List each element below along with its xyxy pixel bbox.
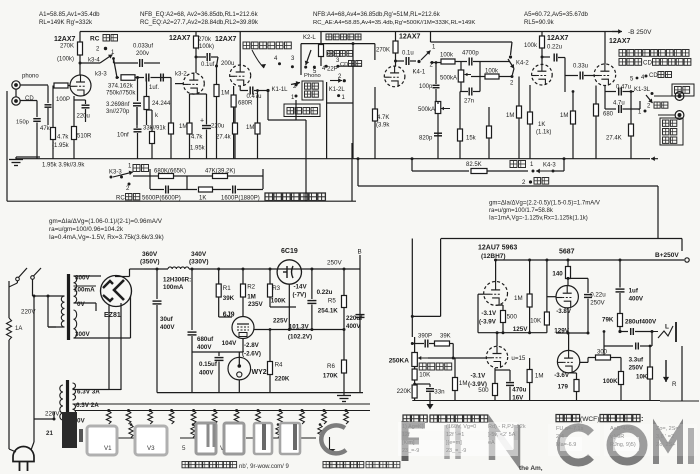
resistor 680R	[231, 95, 236, 107]
node 129V line	[556, 332, 588, 334]
wire mains left lower	[8, 340, 10, 449]
capacitor 0.033uf	[113, 59, 115, 64]
switch K1-2L	[330, 80, 342, 82]
svg-text:500: 500	[478, 387, 489, 394]
svg-text:R3: R3	[272, 285, 280, 292]
label 响度补偿	[419, 363, 426, 370]
svg-text:220K: 220K	[397, 388, 412, 395]
svg-text:R5: R5	[328, 298, 336, 305]
svg-text:(12BH7): (12BH7)	[481, 253, 506, 260]
svg-text:CD: CD	[340, 62, 348, 68]
label 括号内是修改值	[265, 193, 273, 201]
wire stage5 plate to bus	[604, 32, 606, 65]
svg-text:1600P(1880P): 1600P(1880P)	[221, 196, 260, 202]
ground symbol psu	[337, 395, 351, 397]
wire 225V node line	[254, 329, 344, 331]
svg-text:(-3.9V: (-3.9V	[479, 319, 497, 326]
svg-text:1.95k 3.9k//3.9k: 1.95k 3.9k//3.9k	[42, 163, 85, 169]
svg-text:400V: 400V	[197, 344, 212, 351]
svg-text:270K: 270K	[60, 44, 74, 50]
svg-text:(-2.6V): (-2.6V)	[242, 351, 261, 358]
resistor 270k stage2 anode	[195, 32, 197, 37]
svg-text:400V: 400V	[160, 324, 175, 331]
svg-text:79K: 79K	[602, 317, 614, 324]
svg-text:ra=u/gm=100/1.7=58.8k: ra=u/gm=100/1.7=58.8k	[489, 208, 554, 214]
svg-text:v,) 9R: v,) 9R	[610, 434, 624, 440]
mains plug	[13, 447, 34, 462]
svg-text:225V: 225V	[273, 318, 289, 325]
svg-text:CD: CD	[327, 52, 335, 58]
svg-text:Zo=, 2S=*: Zo=, 2S=*	[656, 426, 682, 432]
svg-text:-14V: -14V	[294, 284, 308, 291]
tube EZ81 rectifier	[101, 276, 132, 307]
svg-text:27.4k: 27.4k	[216, 135, 232, 141]
svg-text:(100k): (100k)	[57, 57, 74, 63]
watermark glyph box V3	[135, 426, 167, 455]
svg-text:0.47u: 0.47u	[247, 94, 262, 100]
svg-text:1uf: 1uf	[629, 288, 639, 295]
ground bus psu	[157, 392, 363, 394]
svg-text:K4-2: K4-2	[516, 61, 529, 67]
svg-text:360V: 360V	[142, 251, 158, 258]
svg-text:0V: 0V	[77, 418, 86, 425]
svg-text:5687: 5687	[559, 249, 575, 256]
wire mains left	[8, 281, 10, 318]
svg-text:374.162k: 374.162k	[108, 84, 134, 90]
watermark letter M	[656, 429, 680, 464]
svg-text:820p: 820p	[419, 136, 433, 142]
svg-text:R2: R2	[247, 284, 255, 291]
svg-text:Ia=1mA,Vg=-1.125v,Rx=1.125k(1.: Ia=1mA,Vg=-1.125v,Rx=1.125k(1.1k)	[489, 216, 588, 222]
svg-text:V1: V1	[104, 445, 112, 452]
svg-text:1K: 1K	[538, 122, 545, 128]
svg-text:Phono: Phono	[304, 73, 321, 79]
svg-text:235V: 235V	[248, 301, 264, 308]
svg-text:0.033uf: 0.033uf	[133, 44, 153, 50]
svg-text:(1.95k: (1.95k	[52, 143, 70, 149]
svg-text:(160V, Vg=0: (160V, Vg=0	[446, 424, 476, 430]
svg-text:12AX7: 12AX7	[399, 34, 421, 41]
svg-text:-3.1V: -3.1V	[481, 310, 497, 317]
svg-text:23_=_-9: 23_=_-9	[446, 448, 466, 454]
headphone jack L	[652, 331, 658, 333]
wire V2a plate to bus	[239, 32, 241, 66]
svg-text:200v: 200v	[136, 51, 149, 57]
svg-text:(102.2V): (102.2V)	[288, 334, 312, 341]
svg-text:179: 179	[558, 384, 569, 391]
svg-text:12f '-=1: 12f '-=1	[446, 432, 464, 438]
svg-text:5: 5	[182, 445, 186, 452]
watermark glyph bars mid2	[254, 423, 272, 454]
svg-text:0.1uf: 0.1uf	[201, 62, 215, 68]
svg-text:Ma=-6.9: Ma=-6.9	[556, 442, 576, 448]
svg-text:400V: 400V	[629, 296, 644, 303]
watermark letters II	[447, 425, 458, 459]
tube WY2 stabilizer	[228, 357, 251, 380]
wire stage2 plate	[195, 57, 197, 73]
svg-text:phono: phono	[22, 74, 39, 80]
capacitor 3.3uf path	[603, 346, 605, 355]
transformer secondary HV	[74, 276, 77, 303]
svg-text:100k: 100k	[440, 53, 454, 59]
svg-text:250V: 250V	[629, 365, 644, 372]
heater secondary coils	[73, 383, 76, 400]
resistor col x171	[169, 123, 174, 134]
resistor cathode V4 col	[487, 126, 492, 138]
svg-text:1M: 1M	[459, 380, 468, 387]
B+ 250V bus	[494, 259, 684, 261]
heater transformer core	[66, 380, 69, 437]
label 第二级 WCF heading	[556, 415, 563, 422]
svg-text:WY2: WY2	[252, 369, 267, 376]
resistor 27.4k col	[233, 123, 238, 134]
svg-text:the Am,: the Am,	[519, 465, 543, 472]
watermark white slab over O gap	[613, 437, 639, 451]
svg-text:]{e=m]: ]{e=m]	[446, 440, 462, 446]
label 反馈 left	[133, 165, 140, 172]
svg-text:100K: 100K	[271, 298, 286, 305]
wire cathode join	[74, 99, 86, 101]
resistor R1 39K	[217, 268, 220, 271]
svg-text:22P: 22P	[327, 67, 338, 73]
svg-text:250V: 250V	[327, 260, 343, 267]
svg-text:30uf: 30uf	[160, 316, 174, 323]
svg-text:RL=149K Rg'=332k: RL=149K Rg'=332k	[39, 19, 93, 26]
svg-text:100mA: 100mA	[74, 287, 95, 294]
svg-text:(100k): (100k)	[197, 44, 214, 50]
box lower right bottom border	[660, 400, 699, 402]
svg-text:10K: 10K	[419, 372, 431, 379]
svg-text:B: B	[358, 249, 362, 256]
watermark glyph box V1	[87, 426, 117, 455]
label 唱机前放耳放 arrow	[243, 42, 250, 49]
wire plug cables	[9, 449, 16, 452]
label 第一级 heading	[403, 415, 410, 422]
svg-text:RC_EQ:A2=27.7,Av2=28.84db,RL2=: RC_EQ:A2=27.7,Av2=28.84db,RL2=39.89k	[140, 19, 259, 26]
node B+ arrow to -B 250V	[612, 31, 622, 33]
watermark letter C	[561, 428, 591, 463]
svg-text:220u: 220u	[77, 114, 90, 120]
svg-text:125V: 125V	[513, 326, 529, 333]
svg-text:100P: 100P	[56, 97, 70, 103]
resistor 270K anode	[79, 32, 81, 43]
svg-text:R1: R1	[223, 285, 231, 292]
svg-text:1M: 1M	[179, 124, 187, 130]
svg-text:-3.8V: -3.8V	[556, 308, 572, 315]
svg-text:100mA: 100mA	[163, 284, 184, 291]
svg-text:1M: 1M	[560, 113, 568, 119]
wire B+ top bus	[80, 31, 618, 33]
svg-text:EZ81: EZ81	[104, 312, 121, 319]
svg-text::: :	[641, 414, 643, 423]
svg-text:1) Ag=K): 1) Ag=K)	[402, 424, 424, 430]
svg-text:510R: 510R	[77, 134, 92, 140]
svg-text:RC_AE:A4=58.85,Av4=35.4db,Rg'=: RC_AE:A4=58.85,Av4=35.4db,Rg'=500K//1M=3…	[313, 20, 475, 26]
heater dropper resistor 5	[192, 409, 195, 412]
wire left outer box	[6, 140, 8, 201]
watermark small dark text row	[182, 462, 188, 468]
tube V4 12AX7	[532, 64, 553, 85]
watermark white washes left	[398, 422, 518, 431]
resistor 33k//91k	[150, 132, 155, 144]
svg-text:100k: 100k	[524, 43, 538, 49]
svg-text:680: 680	[603, 112, 614, 118]
svg-text:(3.9k: (3.9k	[376, 123, 390, 129]
label 唱机直接输出 box	[660, 118, 683, 145]
svg-text:1.95k: 1.95k	[190, 146, 206, 152]
svg-text:Rd) - R,PJ .92k: Rd) - R,PJ .92k	[488, 424, 526, 430]
label 1 contact	[295, 95, 298, 98]
svg-text:R4: R4	[275, 362, 283, 369]
capacitor 1uf coupling	[136, 76, 139, 79]
svg-text:1M: 1M	[246, 125, 254, 131]
svg-text:K4-1: K4-1	[413, 70, 426, 76]
svg-text:(WCF): (WCF)	[580, 416, 599, 423]
svg-text:280uf400V: 280uf400V	[625, 319, 657, 326]
svg-text:390P: 390P	[418, 334, 432, 340]
wire drop tone to pot box	[411, 239, 413, 338]
svg-text:27.4K: 27.4K	[606, 136, 622, 142]
svg-text:400V: 400V	[199, 370, 214, 377]
svg-text:-2.8V: -2.8V	[244, 342, 260, 349]
svg-text:3.3uf: 3.3uf	[629, 357, 644, 364]
wire grid to tube lower	[453, 357, 486, 359]
heater transformer primary	[60, 385, 63, 420]
resistor 24.244k	[146, 78, 148, 97]
wire ground bus	[15, 157, 17, 160]
svg-text:23_=-9: 23_=-9	[402, 448, 419, 454]
svg-text:10K: 10K	[530, 318, 542, 325]
watermark glyph bars mid	[196, 423, 216, 454]
wire anode to coupling	[80, 62, 100, 64]
wire k3-3 node	[116, 76, 119, 79]
svg-text:]-5v, <2' 5A: ]-5v, <2' 5A	[488, 432, 516, 438]
svg-text:AaB*4/Sa: AaB*4/Sa	[610, 426, 635, 432]
svg-text:-3.1V: -3.1V	[471, 373, 487, 380]
label RC衰减 #1	[103, 35, 110, 42]
svg-text:33k//91k: 33k//91k	[143, 126, 167, 132]
watermark letter F	[405, 421, 425, 461]
transformer primary coil	[61, 296, 64, 327]
tube V7b 5687 lower	[557, 350, 579, 372]
svg-text:6.3V 2A: 6.3V 2A	[76, 402, 99, 409]
box K1-2L wires	[326, 82, 328, 103]
svg-text:(-7V): (-7V)	[293, 292, 307, 299]
rail lower right section	[412, 400, 660, 402]
heater dropper resistor 7	[235, 409, 238, 412]
svg-text:gm=ΔIa/ΔVg=(2.2-0.5)/(1.5-0.5): gm=ΔIa/ΔVg=(2.2-0.5)/(1.5-0.5)=1.7mA/V	[489, 201, 600, 207]
resistor R3 100K	[269, 268, 272, 271]
svg-text:V3: V3	[147, 445, 155, 452]
wire drop from stage3 to fb	[305, 120, 307, 201]
heater dropper resistor 3	[149, 409, 152, 412]
svg-text:4.7k: 4.7k	[191, 135, 203, 141]
resistor 680K	[159, 174, 174, 179]
svg-text:0.33u: 0.33u	[573, 64, 588, 70]
label 唱机前放 box	[295, 84, 298, 87]
capacitor 3.2698nf	[137, 78, 139, 102]
svg-text:500kA: 500kA	[418, 107, 435, 113]
tube V1a 12AX7	[70, 75, 91, 96]
wire B+ 340V line	[189, 268, 360, 270]
label 2 RC衰减	[128, 183, 131, 186]
svg-text:[Kim]: [Kim]	[402, 440, 415, 446]
svg-text:1M: 1M	[247, 294, 256, 301]
heater dropper resistor 6	[213, 409, 216, 412]
svg-text:100p: 100p	[419, 84, 433, 90]
heater dropper resistor 11	[323, 409, 326, 412]
heater lower rail segments	[96, 437, 136, 439]
label 唱机前放输出至耳放	[619, 50, 626, 57]
tube V1b 12AX7	[183, 73, 204, 94]
svg-text:(330V): (330V)	[189, 259, 209, 266]
watermark white washes right	[548, 424, 600, 456]
svg-text:270k: 270k	[198, 37, 212, 43]
svg-text:4.7K: 4.7K	[377, 115, 389, 121]
svg-text:150p: 150p	[16, 120, 29, 126]
wire 6J9 plate	[242, 310, 244, 317]
svg-text:-B 250V: -B 250V	[628, 29, 652, 36]
svg-text:0.15uf: 0.15uf	[199, 361, 218, 368]
svg-text:0.22u: 0.22u	[590, 292, 606, 299]
svg-text:CD: CD	[649, 73, 658, 79]
wire grid box upper	[478, 293, 484, 295]
ground heater	[329, 437, 331, 449]
svg-text:27n: 27n	[464, 99, 474, 105]
svg-text:K4-3: K4-3	[543, 163, 556, 169]
heater second row droppers	[129, 425, 133, 438]
svg-text:0.1u: 0.1u	[402, 51, 414, 57]
heater dropper resistor 10	[301, 409, 304, 412]
svg-text:270K: 270K	[376, 48, 390, 54]
svg-text:0.22u: 0.22u	[317, 289, 333, 296]
svg-text:750k//750k: 750k//750k	[106, 91, 136, 97]
box 唱机耳放	[284, 104, 320, 117]
wire mains right pole	[32, 279, 34, 296]
wire CD jack down	[21, 100, 38, 102]
svg-text:0.22u: 0.22u	[547, 45, 562, 51]
label CD耳放	[327, 51, 333, 57]
wire phono to grid resistor	[21, 84, 49, 86]
svg-text:254.1K: 254.1K	[318, 308, 338, 315]
arrow R out	[665, 360, 667, 382]
svg-text:220uf: 220uf	[346, 315, 363, 322]
svg-text:39K: 39K	[223, 295, 235, 302]
svg-text:B+250V: B+250V	[655, 252, 679, 259]
svg-text:L: L	[665, 324, 669, 331]
svg-text:400V: 400V	[346, 323, 361, 330]
wire 6J9 grid	[219, 316, 232, 318]
wire to k3-2	[158, 77, 168, 79]
fuse 1A	[6, 318, 11, 340]
svg-text:12AU7 5963: 12AU7 5963	[478, 245, 517, 252]
heater dropper resistor 2	[127, 409, 130, 412]
resistor 1K fb	[199, 187, 213, 192]
wire EZ81 to B+	[115, 276, 130, 278]
heater dropper resistor 4	[170, 409, 173, 412]
tube V7a 5687 upper	[556, 286, 578, 308]
svg-text:680uf: 680uf	[197, 336, 214, 343]
jack output R	[675, 111, 684, 120]
svg-text:CD: CD	[643, 60, 652, 67]
svg-text:104V: 104V	[222, 340, 238, 347]
svg-text:RC: RC	[116, 196, 125, 202]
svg-text:12AX7: 12AX7	[547, 35, 569, 42]
svg-text:K1-2L: K1-2L	[329, 87, 346, 93]
svg-text:340V: 340V	[191, 251, 207, 258]
svg-text:250V: 250V	[590, 300, 605, 307]
svg-text:12AX7: 12AX7	[169, 35, 191, 42]
wire EZ81 heater drops	[108, 305, 110, 390]
svg-text:10K: 10K	[636, 374, 648, 381]
capacitor 1600P	[213, 189, 232, 191]
tube V6a 12AU7 upper	[484, 282, 508, 306]
svg-text:6C19: 6C19	[281, 248, 298, 255]
watermark letter O	[611, 429, 644, 462]
transformer core	[67, 274, 70, 340]
svg-text:47k: 47k	[40, 126, 51, 132]
resistor 510R	[72, 127, 77, 140]
heater dropper resistor 1	[107, 409, 110, 412]
svg-text:250KA: 250KA	[389, 358, 410, 365]
wire 6J9 cathode	[242, 339, 244, 353]
svg-text:k3-3: k3-3	[95, 72, 107, 78]
svg-text:K1-1L: K1-1L	[272, 87, 289, 93]
svg-text:R6: R6	[327, 363, 335, 370]
svg-text:RL5=90.9k: RL5=90.9k	[524, 19, 555, 26]
svg-text:470u: 470u	[512, 387, 526, 394]
ground arrow loudness	[427, 404, 434, 410]
svg-text:u=15: u=15	[511, 355, 525, 362]
svg-text:12f: 12f	[402, 432, 410, 438]
svg-text:300V: 300V	[75, 331, 91, 338]
svg-text:200u: 200u	[221, 61, 234, 67]
resistor 1M stage2	[214, 85, 219, 97]
svg-text:12AX7: 12AX7	[215, 36, 237, 43]
node 125V line	[478, 332, 547, 334]
heater dropper resistor 9	[279, 409, 282, 412]
svg-text:NFB:A4=68,Av4=36.85db,Rg'=51M,: NFB:A4=68,Av4=36.85db,Rg'=51M,RL=212.6k	[313, 11, 441, 18]
heater rail with droppers	[75, 410, 370, 412]
box lower right top border	[441, 238, 682, 240]
svg-text:eA: eA	[488, 440, 495, 446]
resistor 374.162k	[117, 77, 119, 79]
svg-text:gm=ΔIa/ΔVg=(1.06-0.1)/(2-1)=0.: gm=ΔIa/ΔVg=(1.06-0.1)/(2-1)=0.96mA/V	[49, 218, 163, 225]
svg-text:Ia=0.4mA,Vg=-1.5V, Rx=3.75k(3.: Ia=0.4mA,Vg=-1.5V, Rx=3.75k(3.6k/3.9k)	[49, 234, 164, 241]
svg-text:0V: 0V	[77, 301, 86, 308]
svg-text:12AX7: 12AX7	[54, 36, 76, 43]
svg-text:K1-3L: K1-3L	[634, 87, 651, 93]
svg-text:ra=u/gm=100/0.96=104.2k: ra=u/gm=100/0.96=104.2k	[49, 226, 124, 233]
svg-text:(1.1k): (1.1k)	[536, 130, 551, 136]
svg-text:3n//270p: 3n//270p	[106, 109, 130, 115]
watermark glyph C small	[321, 425, 346, 453]
svg-text:K2-L: K2-L	[303, 35, 316, 41]
svg-text:39K: 39K	[440, 334, 451, 340]
svg-text:33n: 33n	[434, 389, 445, 396]
svg-text:220u: 220u	[211, 124, 224, 130]
svg-text:4700p: 4700p	[462, 51, 479, 57]
tube V3a 12AX7	[384, 66, 405, 87]
feedback network wires	[133, 175, 150, 177]
jack CD input	[12, 97, 20, 105]
svg-text:220V: 220V	[45, 411, 60, 418]
label 反馈 right	[510, 161, 517, 168]
svg-text:1uf.: 1uf.	[149, 85, 159, 91]
heater dropper resistor 8	[257, 409, 260, 412]
tube V2a 12AX7	[230, 65, 251, 86]
choke 12H306R	[144, 268, 168, 270]
